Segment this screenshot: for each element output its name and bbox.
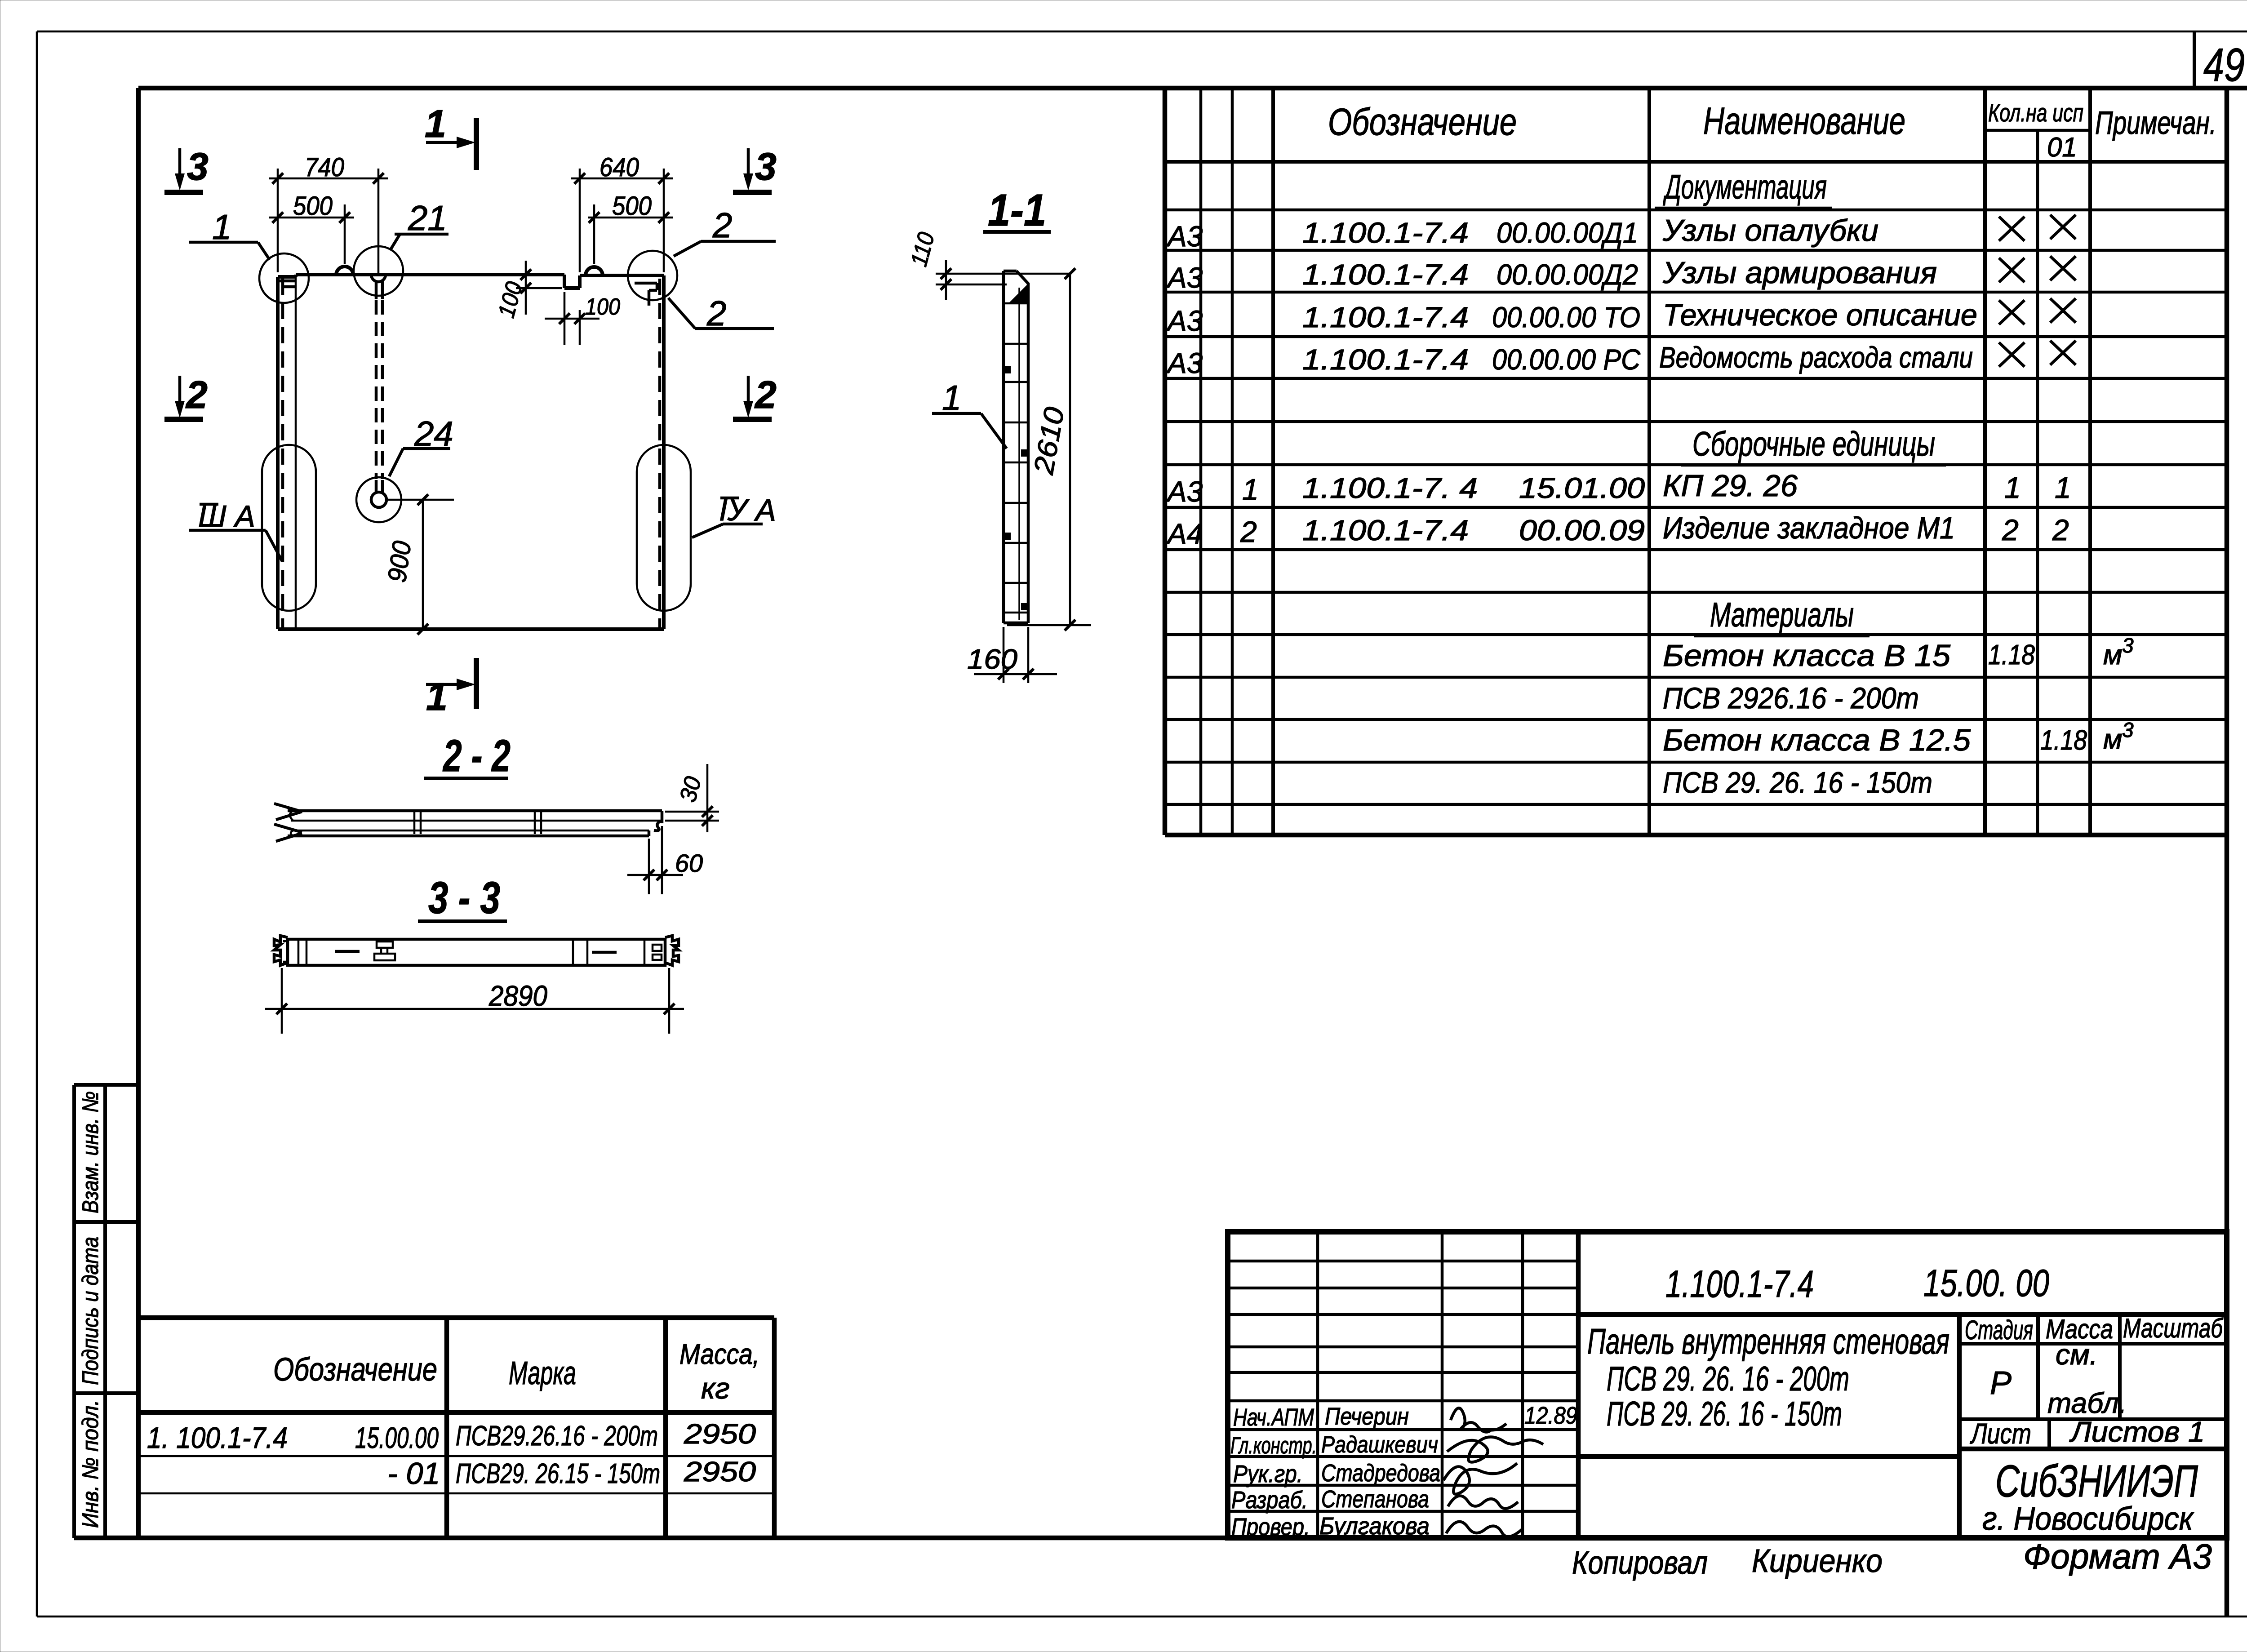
svg-text:110: 110	[906, 230, 940, 269]
Стадия / Масса / Масштаб headers	[1965, 1313, 2224, 1345]
zone stadium III A	[262, 445, 316, 611]
svg-text:500: 500	[293, 191, 333, 221]
section 1-1 dim 110	[906, 230, 1070, 300]
svg-text:Сборочные единицы: Сборочные единицы	[1692, 425, 1935, 463]
svg-text:Кириенко: Кириенко	[1752, 1543, 1883, 1579]
svg-text:Наименование: Наименование	[1703, 100, 1905, 142]
dimension 740	[269, 153, 388, 184]
svg-text:Масштаб: Масштаб	[2123, 1313, 2224, 1343]
bottom-left table header	[273, 1338, 759, 1405]
lifting loop left	[336, 266, 353, 275]
svg-text:ПСВ 29. 26. 16 - 200т: ПСВ 29. 26. 16 - 200т	[1607, 1360, 1849, 1398]
bottom-left table row 2	[387, 1457, 756, 1491]
bottom-left table row 1	[147, 1419, 756, 1454]
Копировал Кириенко	[1572, 1543, 1883, 1581]
svg-text:Разраб.: Разраб.	[1231, 1487, 1308, 1514]
dimension 500 right	[588, 191, 673, 223]
spec row: Бетон класса В12.5	[1663, 718, 2134, 757]
spec row: Узлы опалубки	[1166, 213, 2076, 253]
svg-text:Изделие закладное М1: Изделие закладное М1	[1663, 511, 1955, 545]
svg-text:2: 2	[185, 373, 208, 417]
detail circle 2	[628, 251, 677, 300]
strip label Подпись и дата	[78, 1237, 103, 1385]
section 2-2 dim 60	[627, 826, 703, 894]
svg-text:Нач.АПМ: Нач.АПМ	[1233, 1404, 1314, 1431]
svg-text:Кол.на исп: Кол.на исп	[1988, 98, 2083, 127]
svg-text:2950: 2950	[684, 1457, 756, 1488]
svg-text:- 01: - 01	[387, 1457, 440, 1491]
section mark 2 right	[733, 373, 777, 419]
org СибЗНИИЭП г. Новосибирск	[1982, 1456, 2198, 1537]
svg-text:Ведомость расхода стали: Ведомость расхода стали	[1659, 341, 1973, 374]
svg-text:3 - 3: 3 - 3	[428, 873, 500, 923]
svg-text:1: 1	[426, 675, 448, 719]
spec row: ПСВ 29.26.16-150т	[1663, 766, 1932, 799]
svg-text:1: 1	[1242, 473, 1259, 506]
svg-text:900: 900	[382, 539, 417, 584]
lifting hole detail 24	[356, 477, 401, 522]
section 3-3 dim 2890	[265, 968, 684, 1034]
svg-text:см.: см.	[2056, 1338, 2098, 1371]
label 2 upper leader	[674, 205, 776, 256]
dimension 900	[382, 494, 454, 635]
svg-text:СибЗНИИЭП: СибЗНИИЭП	[1995, 1456, 2198, 1506]
svg-text:Примечан.: Примечан.	[2095, 105, 2216, 141]
section mark 1 bottom	[426, 658, 476, 719]
svg-text:1.18: 1.18	[1988, 639, 2035, 671]
spec row: ПСВ 2926.16-200т	[1663, 681, 1919, 715]
spec row: Узлы армирования	[1166, 256, 2076, 294]
title block signature grid	[1228, 1232, 1578, 1538]
section 3-3 middle bracket	[374, 941, 395, 960]
svg-text:640: 640	[599, 153, 639, 182]
svg-text:Бетон класса В 15: Бетон класса В 15	[1663, 639, 1950, 673]
svg-text:Инв. № подл.: Инв. № подл.	[78, 1400, 103, 1528]
strip label Взам. инв. №	[78, 1091, 103, 1213]
spec row: Бетон класса В15	[1663, 634, 2134, 673]
extension lines top	[278, 169, 664, 275]
loop recess at detail 21	[371, 275, 386, 299]
svg-text:1.100.1-7.4: 1.100.1-7.4	[1302, 514, 1469, 546]
dimension 500 left	[269, 191, 354, 223]
svg-text:2950: 2950	[684, 1419, 756, 1450]
Стадия value Р	[1990, 1365, 2012, 1401]
svg-text:Обозначение: Обозначение	[273, 1352, 437, 1388]
svg-text:3: 3	[755, 145, 777, 188]
svg-text:Листов 1: Листов 1	[2069, 1416, 2205, 1448]
svg-text:49: 49	[2203, 39, 2245, 91]
svg-text:Рук.гр.: Рук.гр.	[1233, 1461, 1303, 1488]
panel left rebate lines	[280, 275, 296, 629]
bottom-left table grid	[138, 1318, 774, 1538]
spec row: Ведомость расхода стали	[1166, 341, 2076, 379]
svg-text:1.100.1-7.4: 1.100.1-7.4	[1302, 217, 1469, 249]
svg-text:ПСВ 2926.16 - 200т: ПСВ 2926.16 - 200т	[1663, 681, 1919, 715]
svg-text:1-1: 1-1	[988, 185, 1046, 235]
svg-text:00.00.00 ТО: 00.00.00 ТО	[1492, 301, 1640, 333]
section 1-1 dim 160	[967, 627, 1057, 683]
label 24 leader	[389, 414, 453, 476]
svg-text:Гл.констр.: Гл.констр.	[1230, 1433, 1317, 1459]
svg-text:Взам. инв. №: Взам. инв. №	[78, 1091, 103, 1213]
svg-text:табл.: табл.	[2047, 1387, 2127, 1419]
section 2-2 title	[424, 731, 511, 781]
svg-text:00.00.00Д2: 00.00.00Д2	[1497, 258, 1638, 291]
spec row: КП 29.26	[1166, 469, 2071, 508]
svg-text:Материалы: Материалы	[1710, 596, 1854, 634]
svg-text:А4: А4	[1166, 518, 1203, 550]
section 3-3 right clamp	[653, 936, 679, 965]
panel right corner rebate	[635, 283, 657, 306]
svg-text:Р: Р	[1990, 1365, 2012, 1401]
svg-text:Панель внутренняя стеновая: Панель внутренняя стеновая	[1587, 1321, 1949, 1361]
section mark 3 left	[164, 145, 209, 192]
spec row: Изделие закладное М1	[1166, 511, 2069, 550]
section 1-1 dim 2610	[1007, 268, 1091, 631]
svg-text:Техническое описание: Техническое описание	[1663, 298, 1977, 332]
svg-text:ПСВ 29. 26. 16 - 150т: ПСВ 29. 26. 16 - 150т	[1663, 766, 1932, 799]
title block right part grid	[1578, 1314, 2227, 1538]
svg-text:2: 2	[1240, 515, 1257, 548]
section mark 3 right	[733, 145, 777, 192]
svg-text:12.89: 12.89	[1524, 1402, 1577, 1429]
svg-text:Степанова: Степанова	[1321, 1486, 1429, 1513]
svg-text:м: м	[2103, 639, 2123, 671]
svg-text:740: 740	[305, 153, 344, 182]
svg-text:15.00.00: 15.00.00	[355, 1421, 439, 1454]
svg-text:ПСВ29. 26.15 - 150т: ПСВ29. 26.15 - 150т	[456, 1458, 660, 1489]
svg-text:м: м	[2103, 724, 2123, 755]
svg-text:3: 3	[2122, 634, 2134, 657]
svg-text:3: 3	[2122, 718, 2134, 742]
section mark 2 left	[164, 373, 208, 419]
svg-text:Провер.: Провер.	[1231, 1514, 1310, 1541]
svg-text:1.100.1-7.4: 1.100.1-7.4	[1665, 1263, 1814, 1305]
section 1-1 body	[1004, 271, 1028, 623]
spec row: Сборочные единицы heading	[1681, 425, 1946, 466]
panel hidden line right (dashed)	[658, 279, 662, 628]
svg-text:1: 1	[2004, 471, 2021, 504]
svg-text:ПСВ 29. 26. 16 - 150т: ПСВ 29. 26. 16 - 150т	[1607, 1395, 1842, 1433]
svg-text:Булгакова: Булгакова	[1319, 1513, 1430, 1540]
svg-text:Узлы армирования: Узлы армирования	[1662, 256, 1937, 290]
svg-text:1. 100.1-7.4: 1. 100.1-7.4	[147, 1421, 288, 1454]
svg-text:2 - 2: 2 - 2	[443, 731, 511, 781]
label 2 lower leader	[668, 293, 774, 333]
dimension 640	[571, 153, 673, 184]
svg-text:Печерин: Печерин	[1325, 1403, 1409, 1430]
svg-text:21: 21	[408, 198, 447, 238]
svg-text:Подпись и дата: Подпись и дата	[78, 1237, 103, 1385]
left margin strip boxes	[74, 1085, 138, 1538]
svg-text:А3: А3	[1166, 475, 1203, 508]
section 3-3 body	[288, 939, 665, 965]
svg-text:Марка: Марка	[509, 1355, 576, 1391]
label III A leader	[189, 499, 282, 561]
svg-text:1.100.1-7.4: 1.100.1-7.4	[1302, 301, 1469, 333]
svg-text:Бетон класса В 12.5: Бетон класса В 12.5	[1663, 723, 1971, 757]
section 3-3 title	[418, 873, 507, 923]
Масса value см. табл.	[2047, 1338, 2127, 1419]
svg-text:Копировал: Копировал	[1572, 1545, 1708, 1581]
svg-text:А3: А3	[1166, 305, 1203, 337]
svg-text:2: 2	[2052, 513, 2069, 546]
svg-text:2: 2	[712, 205, 732, 245]
svg-text:00.00.09: 00.00.09	[1519, 514, 1645, 546]
svg-text:1.100.1-7.4: 1.100.1-7.4	[1302, 258, 1469, 291]
svg-text:Радашкевич: Радашкевич	[1321, 1432, 1438, 1458]
spec row: Техническое описание	[1166, 298, 2076, 337]
detail circle 1	[259, 253, 309, 303]
title block outer	[1228, 1232, 2227, 1538]
spec table header text	[1328, 98, 2216, 162]
svg-text:01: 01	[2047, 132, 2077, 162]
svg-text:3: 3	[187, 145, 209, 188]
svg-text:30: 30	[675, 774, 707, 805]
svg-text:А3: А3	[1166, 347, 1203, 379]
svg-text:А3: А3	[1166, 262, 1203, 294]
name: Панель внутренняя стеновая	[1587, 1321, 1949, 1433]
svg-text:Формат А3: Формат А3	[2023, 1537, 2212, 1576]
dimension 100 horizontal at notch	[545, 292, 620, 345]
svg-text:15.01.00: 15.01.00	[1519, 472, 1645, 504]
detail circle 21	[354, 246, 403, 296]
svg-text:А3: А3	[1166, 220, 1203, 253]
spec row: Материалы heading	[1694, 596, 1870, 636]
svg-text:КП 29. 26: КП 29. 26	[1663, 469, 1798, 503]
svg-text:2: 2	[754, 373, 777, 417]
svg-text:Стадия: Стадия	[1965, 1315, 2033, 1345]
lifting loop right	[586, 267, 603, 275]
svg-text:00.00.00Д1: 00.00.00Д1	[1497, 217, 1638, 249]
dimension 100 vertical at notch	[493, 261, 562, 320]
section mark 1 top	[425, 102, 476, 170]
hidden channel double dashed center	[376, 300, 382, 479]
specification table grid	[1165, 88, 2227, 835]
section 2-2 dim 30	[665, 764, 719, 832]
signature squiggles	[1443, 1408, 1543, 1537]
panel outline (plan view)	[278, 275, 664, 629]
label 21 leader	[390, 198, 449, 250]
svg-text:100: 100	[493, 279, 528, 320]
svg-text:60: 60	[675, 849, 703, 877]
svg-text:500: 500	[612, 191, 652, 221]
svg-text:160: 160	[967, 644, 1017, 675]
section 2-2 body	[274, 804, 662, 841]
page number box 49	[2194, 31, 2245, 91]
label 1 leader (top-left corner)	[189, 207, 270, 260]
svg-text:Узлы опалубки: Узлы опалубки	[1662, 213, 1878, 248]
svg-text:Стадредова: Стадредова	[1321, 1460, 1440, 1487]
signature rows text	[1230, 1402, 1577, 1541]
strip label Инв. № подл.	[78, 1400, 103, 1528]
svg-text:г. Новосибирск: г. Новосибирск	[1982, 1501, 2194, 1537]
svg-text:1: 1	[2055, 471, 2071, 504]
svg-text:1.100.1-7.4: 1.100.1-7.4	[1302, 343, 1469, 376]
section 1-1 title	[983, 185, 1051, 235]
section 3-3 left clamp	[274, 936, 288, 965]
svg-text:100: 100	[585, 294, 620, 320]
svg-text:Документация: Документация	[1663, 168, 1827, 206]
svg-text:2610: 2610	[1028, 405, 1070, 477]
svg-text:00.00.00 РС: 00.00.00 РС	[1492, 343, 1641, 376]
Лист / Листов 1	[1970, 1416, 2205, 1450]
Формат А3	[2023, 1537, 2212, 1576]
svg-text:1.18: 1.18	[2040, 725, 2087, 756]
doc number 1.100.1-7.4 15.00.00	[1665, 1262, 2049, 1305]
svg-text:1: 1	[942, 378, 961, 417]
svg-text:Лист: Лист	[1970, 1417, 2031, 1450]
label IV A leader	[692, 493, 776, 537]
svg-text:1: 1	[425, 102, 446, 146]
zone stadium IV A	[637, 445, 691, 611]
svg-text:Обозначение: Обозначение	[1328, 101, 1517, 143]
svg-text:2890: 2890	[488, 980, 547, 1012]
svg-text:Масса,: Масса,	[679, 1338, 759, 1370]
spec row: Документация heading	[1655, 168, 1832, 208]
svg-text:ПСВ29.26.16 - 200т: ПСВ29.26.16 - 200т	[456, 1421, 658, 1452]
svg-text:15.00. 00: 15.00. 00	[1923, 1262, 2049, 1304]
section 1-1 label 1 leader	[932, 378, 1007, 449]
svg-text:1.100.1-7. 4: 1.100.1-7. 4	[1302, 472, 1478, 504]
svg-text:кг: кг	[701, 1372, 730, 1405]
panel hidden line left (dashed)	[281, 279, 284, 628]
svg-text:2: 2	[2002, 513, 2019, 546]
